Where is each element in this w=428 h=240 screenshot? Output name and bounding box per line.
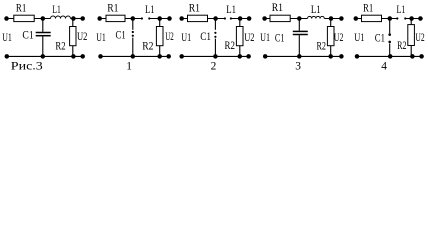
- svg-text:U2: U2: [77, 31, 88, 43]
- svg-text:1: 1: [126, 60, 132, 72]
- svg-text:C1: C1: [22, 29, 34, 41]
- svg-text:U1: U1: [260, 32, 270, 44]
- svg-text:U1: U1: [2, 32, 12, 44]
- svg-text:R2: R2: [317, 40, 327, 52]
- svg-text:C1: C1: [200, 31, 211, 43]
- svg-text:U2: U2: [244, 32, 255, 44]
- svg-text:L1: L1: [311, 4, 321, 16]
- svg-text:C1: C1: [375, 33, 385, 45]
- svg-text:R2: R2: [225, 40, 236, 52]
- svg-text:U1: U1: [181, 32, 191, 44]
- svg-text:4: 4: [381, 60, 387, 72]
- svg-text:U1: U1: [96, 32, 106, 44]
- svg-text:2: 2: [211, 60, 217, 72]
- svg-text:Рис.3: Рис.3: [11, 58, 43, 72]
- svg-text:L1: L1: [226, 4, 236, 16]
- svg-text:L1: L1: [145, 4, 155, 16]
- svg-text:R2: R2: [142, 40, 154, 52]
- svg-text:C1: C1: [116, 29, 126, 41]
- svg-text:U2: U2: [334, 32, 344, 44]
- svg-text:C1: C1: [275, 33, 285, 45]
- svg-text:R2: R2: [397, 40, 407, 52]
- svg-text:R1: R1: [16, 2, 27, 14]
- svg-text:U1: U1: [354, 32, 364, 44]
- svg-text:R1: R1: [107, 2, 119, 14]
- svg-text:U2: U2: [165, 31, 174, 43]
- svg-text:R1: R1: [189, 2, 201, 14]
- svg-text:3: 3: [295, 60, 301, 72]
- svg-text:L1: L1: [397, 4, 406, 16]
- svg-text:L1: L1: [52, 4, 61, 16]
- svg-text:R1: R1: [272, 2, 284, 14]
- svg-text:R2: R2: [55, 40, 65, 52]
- svg-text:U2: U2: [415, 32, 425, 44]
- svg-text:R1: R1: [363, 2, 374, 14]
